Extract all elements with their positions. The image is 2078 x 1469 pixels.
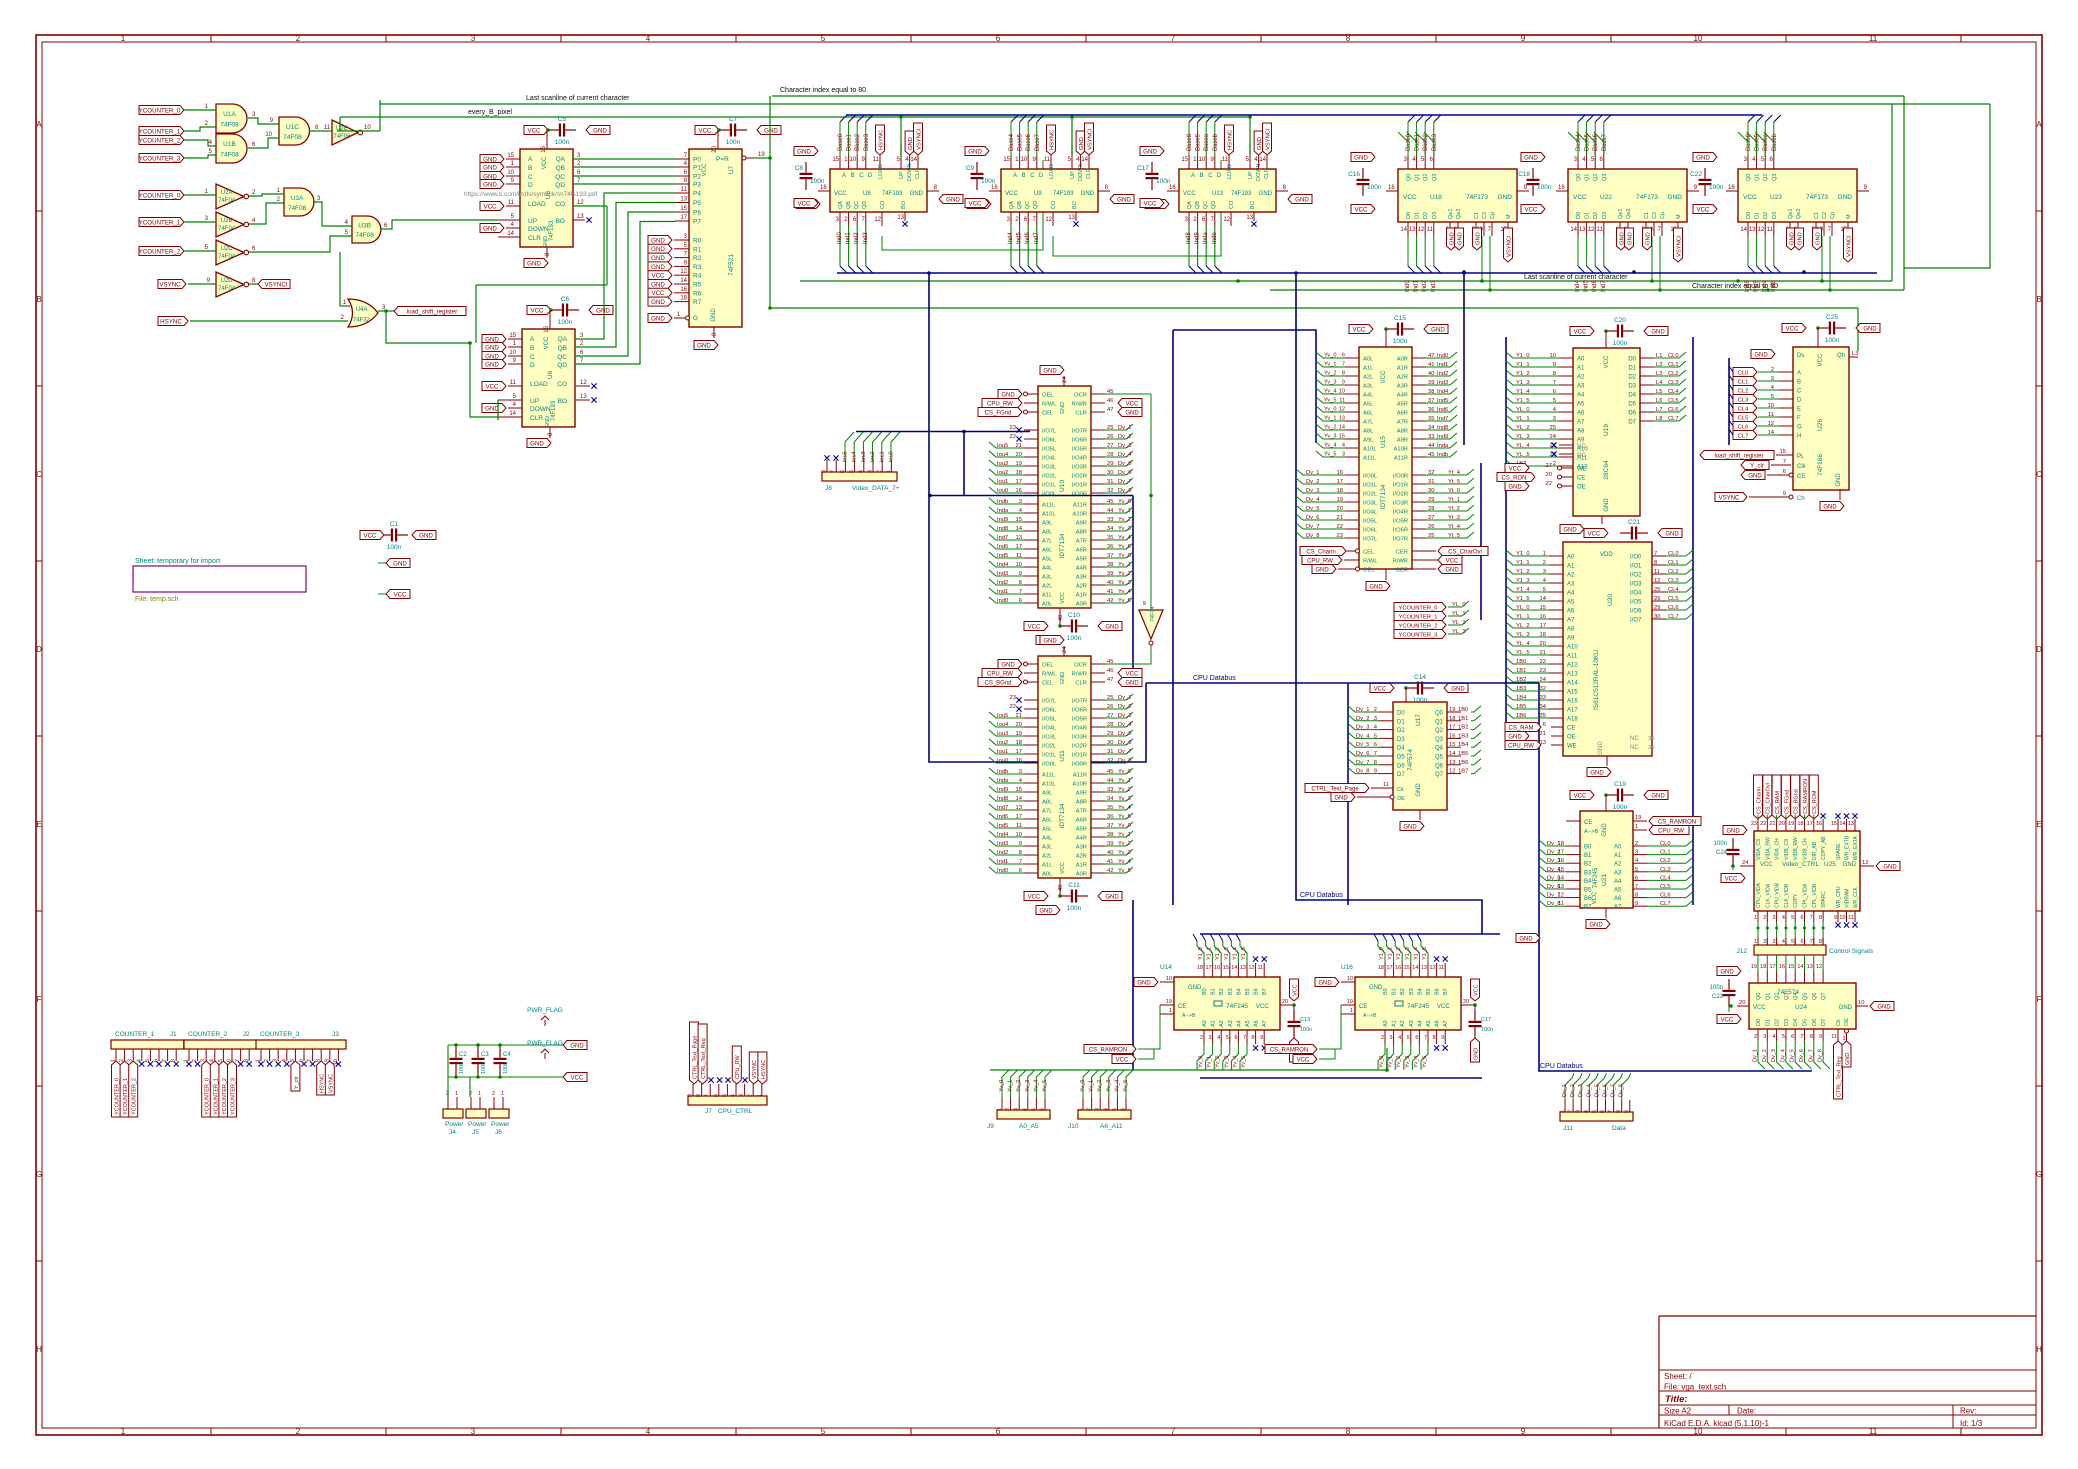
svg-text:VSYNCI: VSYNCI [916, 128, 922, 150]
svg-text:100n: 100n [981, 178, 996, 185]
svg-text:R4: R4 [693, 273, 702, 280]
svg-text:35: 35 [1648, 745, 1654, 751]
svg-text:A8L: A8L [1042, 530, 1053, 536]
svg-text:A3: A3 [1409, 1020, 1415, 1027]
svg-text:Ind0: Ind0 [1405, 280, 1411, 292]
svg-text:Yt_5: Yt_5 [1448, 479, 1460, 485]
svg-text:Indb: Indb [997, 769, 1008, 775]
svg-text:R/WL: R/WL [1042, 402, 1057, 408]
svg-text:4: 4 [1584, 1110, 1590, 1113]
svg-text:C8: C8 [795, 165, 804, 172]
svg-text:GND: GND [1403, 824, 1417, 830]
svg-text:I/O5L: I/O5L [1363, 519, 1378, 525]
svg-text:Title:: Title: [1665, 1394, 1688, 1405]
svg-text:19: 19 [1016, 731, 1022, 737]
svg-text:12: 12 [1558, 893, 1564, 899]
svg-text:Ind5: Ind5 [1584, 280, 1590, 292]
svg-text:I/O0: I/O0 [1630, 555, 1642, 561]
svg-text:J1: J1 [170, 1031, 177, 1038]
svg-text:YL_2: YL_2 [1516, 425, 1530, 431]
svg-text:Video_CTRL: Video_CTRL [1782, 861, 1819, 868]
svg-text:10: 10 [1347, 976, 1353, 982]
svg-text:VCC: VCC [1292, 984, 1298, 996]
svg-text:GND: GND [651, 299, 665, 306]
svg-text:29: 29 [1107, 731, 1113, 737]
svg-text:A9L: A9L [1042, 521, 1053, 527]
svg-text:Yv_5: Yv_5 [1118, 814, 1131, 820]
svg-text:QC: QC [854, 201, 860, 209]
svg-text:U1A: U1A [223, 111, 236, 118]
svg-text:Dv_3: Dv_3 [1356, 725, 1370, 731]
svg-text:GND: GND [1815, 232, 1821, 245]
svg-text:19: 19 [1788, 821, 1794, 827]
svg-text:100n: 100n [558, 319, 573, 326]
svg-text:Iou2: Iou2 [997, 740, 1008, 746]
svg-text:Y1_2: Y1_2 [1215, 947, 1221, 960]
svg-text:A11L: A11L [1042, 503, 1056, 509]
svg-text:D: D [1217, 173, 1222, 179]
svg-text:Dv_4: Dv_4 [1780, 1049, 1786, 1062]
svg-text:13: 13 [1409, 227, 1416, 233]
svg-text:7: 7 [1608, 1110, 1614, 1113]
svg-text:VCC: VCC [1060, 862, 1066, 874]
svg-text:A6_A11: A6_A11 [1100, 1123, 1123, 1130]
svg-text:CLK_VIDB: CLK_VIDB [1784, 883, 1790, 908]
svg-text:5: 5 [1592, 1110, 1598, 1113]
svg-text:39: 39 [1107, 571, 1113, 577]
svg-text:I/O1R: I/O1R [1072, 483, 1087, 489]
svg-text:VCC: VCC [571, 1075, 584, 1081]
svg-text:GND: GND [1863, 326, 1877, 332]
svg-text:Y1_3: Y1_3 [1405, 947, 1411, 960]
svg-text:74F193: 74F193 [549, 220, 555, 241]
svg-text:CL6: CL6 [1660, 893, 1671, 899]
svg-text:Dv_1: Dv_1 [1753, 1049, 1759, 1062]
svg-text:C: C [859, 173, 864, 179]
svg-text:GND: GND [1001, 662, 1015, 668]
svg-text:File: temp.sch: File: temp.sch [135, 596, 179, 603]
svg-text:C2: C2 [1652, 212, 1658, 219]
svg-text:VCC: VCC [485, 383, 499, 390]
svg-text:17: 17 [680, 215, 687, 221]
svg-text:I/O0R: I/O0R [1072, 492, 1087, 498]
svg-text:VCC: VCC [542, 156, 548, 169]
svg-text:13: 13 [1579, 227, 1586, 233]
svg-text:13: 13 [1807, 964, 1813, 970]
svg-text:Yv_5: Yv_5 [1422, 1056, 1428, 1068]
svg-text:GND: GND [910, 191, 924, 197]
svg-text:Ind0: Ind0 [997, 598, 1008, 604]
svg-text:U23: U23 [1770, 194, 1782, 201]
svg-text:8: 8 [1019, 580, 1022, 586]
svg-text:Dv_5: Dv_5 [1790, 1049, 1796, 1062]
svg-text:16: 16 [820, 185, 827, 191]
svg-text:CPU_CTRL: CPU_CTRL [718, 1108, 753, 1115]
svg-text:17: 17 [1016, 479, 1022, 485]
svg-text:D3: D3 [1772, 212, 1778, 219]
svg-text:I/O3R: I/O3R [1072, 735, 1087, 741]
svg-text:Yv_3: Yv_3 [1106, 1080, 1112, 1092]
svg-text:Dv_2: Dv_2 [1118, 704, 1132, 710]
svg-text:Ind1: Ind1 [1437, 362, 1448, 368]
svg-text:Yt_4: Yt_4 [1448, 470, 1461, 476]
svg-text:L7: L7 [1656, 407, 1662, 413]
svg-text:I/O7: I/O7 [1630, 618, 1642, 624]
svg-text:1: 1 [121, 34, 126, 43]
svg-text:13: 13 [1421, 965, 1427, 971]
svg-text:PWR_FLAG: PWR_FLAG [527, 1007, 563, 1014]
svg-text:U15: U15 [1380, 436, 1387, 448]
svg-text:41: 41 [1107, 589, 1113, 595]
svg-text:17: 17 [1807, 821, 1813, 827]
svg-text:13: 13 [577, 214, 584, 220]
svg-text:VCC: VCC [651, 273, 665, 280]
svg-text:U24: U24 [1795, 1004, 1807, 1011]
svg-text:U8: U8 [863, 191, 871, 197]
svg-text:P5: P5 [693, 200, 701, 207]
svg-text:GND: GND [1188, 985, 1202, 991]
svg-text:U4A: U4A [356, 307, 368, 313]
svg-text:Q0: Q0 [1756, 993, 1762, 1000]
svg-text:1: 1 [121, 1427, 126, 1436]
svg-text:2: 2 [492, 1091, 495, 1097]
svg-text:I/O1R: I/O1R [1072, 753, 1087, 759]
svg-text:H: H [36, 1345, 42, 1354]
svg-text:Dv_1: Dv_1 [1118, 695, 1132, 701]
svg-text:Yv_1: Yv_1 [1089, 1080, 1095, 1092]
svg-text:16: 16 [1558, 185, 1565, 191]
svg-text:4: 4 [1022, 1108, 1028, 1111]
svg-text:11: 11 [1768, 412, 1774, 418]
svg-text:Ind3: Ind3 [997, 571, 1008, 577]
svg-text:11: 11 [1339, 398, 1345, 404]
svg-text:3: 3 [1773, 915, 1776, 921]
svg-text:11: 11 [1767, 227, 1774, 233]
svg-text:NC: NC [1630, 736, 1639, 742]
svg-text:Dv_6: Dv_6 [1799, 1049, 1805, 1062]
svg-text:I/O1L: I/O1L [1042, 483, 1057, 489]
svg-text:25: 25 [1428, 533, 1434, 539]
svg-text:B1: B1 [1211, 988, 1217, 995]
svg-text:A: A [842, 173, 846, 179]
svg-text:16: 16 [1016, 758, 1022, 764]
svg-text:GND: GND [1001, 392, 1015, 398]
svg-text:27: 27 [1546, 463, 1552, 469]
svg-text:CL1: CL1 [1668, 362, 1679, 368]
svg-text:C9: C9 [966, 165, 975, 172]
svg-text:100n: 100n [1537, 184, 1552, 191]
svg-text:8: 8 [1810, 1034, 1813, 1040]
svg-text:CS_ROM: CS_ROM [1812, 790, 1818, 814]
svg-text:19: 19 [1337, 497, 1343, 503]
svg-text:GND: GND [1039, 908, 1053, 914]
svg-text:B0: B0 [1202, 988, 1208, 995]
svg-text:GND: GND [1838, 194, 1853, 201]
svg-text:A4: A4 [1614, 879, 1622, 885]
svg-text:HSYNC: HSYNC [1227, 130, 1233, 150]
svg-text:28: 28 [1428, 506, 1434, 512]
svg-text:VCC: VCC [1604, 355, 1610, 368]
svg-text:2: 2 [296, 34, 301, 43]
svg-text:B3: B3 [1228, 988, 1234, 995]
svg-text:J2: J2 [243, 1031, 250, 1038]
svg-text:GND: GND [1589, 922, 1603, 928]
svg-text:R5: R5 [693, 282, 702, 289]
svg-text:6: 6 [996, 1427, 1001, 1436]
svg-text:Yv_1: Yv_1 [1118, 562, 1131, 568]
svg-text:GND: GND [393, 560, 407, 567]
svg-text:17: 17 [1016, 544, 1022, 550]
svg-text:BO: BO [556, 218, 565, 225]
svg-text:11: 11 [1848, 915, 1854, 921]
svg-text:Indb: Indb [997, 499, 1008, 505]
svg-text:A2: A2 [1567, 573, 1575, 579]
svg-text:GND: GND [485, 405, 499, 412]
svg-text:VCC: VCC [1721, 1017, 1734, 1023]
svg-text:C14: C14 [1414, 674, 1426, 681]
svg-text:VCC: VCC [1437, 1004, 1450, 1010]
svg-text:CPL_VIDB: CPL_VIDB [1812, 883, 1818, 908]
svg-text:I/O5R: I/O5R [1072, 447, 1087, 453]
svg-text:CLR: CLR [528, 235, 541, 242]
svg-text:6: 6 [713, 1094, 719, 1097]
svg-text:GND: GND [1524, 154, 1538, 161]
svg-text:13: 13 [1749, 227, 1756, 233]
svg-text:A1R: A1R [1076, 863, 1087, 869]
svg-text:22: 22 [1546, 481, 1552, 487]
svg-text:Yv_2: Yv_2 [1118, 571, 1131, 577]
svg-text:20: 20 [1739, 1000, 1745, 1006]
svg-text:C1: C1 [1814, 212, 1820, 219]
svg-text:A10L: A10L [1042, 512, 1056, 518]
svg-text:10: 10 [1021, 157, 1028, 163]
svg-text:22: 22 [1540, 659, 1546, 665]
svg-text:U26: U26 [1817, 419, 1824, 431]
svg-text:A0R: A0R [1076, 872, 1087, 878]
svg-text:GND: GND [1668, 194, 1683, 201]
svg-text:NC: NC [1577, 444, 1586, 450]
svg-text:A0L: A0L [1363, 357, 1374, 363]
svg-text:A4L: A4L [1363, 393, 1374, 399]
svg-text:D3: D3 [1602, 212, 1608, 219]
svg-text:A9R: A9R [1397, 438, 1408, 444]
svg-text:Y1_4: Y1_4 [1232, 947, 1238, 960]
svg-text:10: 10 [850, 157, 857, 163]
svg-text:27: 27 [1428, 515, 1434, 521]
svg-text:Id: 1/3: Id: 1/3 [1960, 1419, 1983, 1428]
svg-text:J12: J12 [1737, 948, 1748, 955]
svg-text:CL5: CL5 [1668, 398, 1679, 404]
svg-text:C23: C23 [1712, 994, 1724, 1000]
svg-text:74F04: 74F04 [218, 226, 236, 232]
svg-text:VCC: VCC [1818, 353, 1824, 366]
svg-text:38: 38 [1107, 832, 1113, 838]
svg-text:VCC: VCC [1256, 1004, 1269, 1010]
svg-text:CO: CO [557, 381, 567, 388]
svg-text:D2: D2 [1593, 212, 1599, 219]
svg-text:12: 12 [1449, 769, 1455, 775]
svg-text:Yv_4: Yv_4 [1118, 805, 1132, 811]
svg-text:I/O4L: I/O4L [1363, 510, 1378, 516]
svg-text:GND: GND [711, 308, 717, 322]
svg-text:CE: CE [1178, 1004, 1186, 1010]
svg-text:CL2: CL2 [1660, 858, 1671, 864]
svg-text:VCC: VCC [1183, 191, 1196, 197]
svg-text:A2: A2 [1614, 862, 1622, 868]
svg-text:Dv_7: Dv_7 [1808, 1049, 1814, 1062]
svg-text:J6: J6 [495, 1129, 502, 1136]
svg-text:B0: B0 [1584, 845, 1592, 851]
svg-text:Ind4: Ind4 [1008, 232, 1014, 244]
svg-text:46: 46 [1107, 398, 1113, 404]
svg-text:10: 10 [1768, 403, 1774, 409]
svg-text:YCOUNTER_3: YCOUNTER_3 [231, 1078, 237, 1115]
svg-text:COUNTER_1: COUNTER_1 [115, 1031, 155, 1038]
svg-text:3: 3 [868, 470, 874, 473]
svg-text:10: 10 [1016, 832, 1022, 838]
svg-text:A5: A5 [1567, 600, 1575, 606]
svg-text:R6: R6 [693, 290, 702, 297]
svg-text:Iou0: Iou0 [997, 758, 1008, 764]
svg-text:17: 17 [1558, 850, 1564, 856]
svg-text:UP: UP [528, 218, 537, 225]
svg-text:Ind9: Ind9 [1195, 232, 1201, 244]
svg-text:C: C [1797, 389, 1802, 395]
svg-text:A5: A5 [1426, 1020, 1432, 1027]
svg-text:14: 14 [680, 278, 687, 284]
svg-text:Yv_1: Yv_1 [1388, 1056, 1394, 1068]
svg-text:J10: J10 [1068, 1123, 1079, 1130]
svg-text:A7: A7 [1443, 1020, 1449, 1027]
svg-text:A4: A4 [1577, 393, 1585, 399]
svg-text:Inda: Inda [997, 778, 1009, 784]
svg-text:Cp: Cp [1660, 212, 1666, 219]
svg-text:Dv_3: Dv_3 [1578, 1084, 1584, 1097]
svg-text:GND: GND [1105, 624, 1119, 630]
svg-text:16: 16 [1388, 185, 1395, 191]
svg-text:Control Signals: Control Signals [1829, 948, 1874, 955]
svg-text:IDT7134: IDT7134 [1059, 803, 1066, 828]
svg-text:U11: U11 [1059, 750, 1066, 762]
svg-text:74F173: 74F173 [1466, 194, 1488, 201]
svg-text:Dv_8: Dv_8 [1818, 1049, 1824, 1062]
svg-text:C: C [1030, 173, 1035, 179]
svg-text:GND: GND [651, 281, 665, 288]
svg-text:8: 8 [1374, 760, 1377, 766]
svg-text:A9: A9 [1577, 438, 1585, 444]
svg-text:YCOUNTER_1: YCOUNTER_1 [139, 219, 181, 226]
svg-text:B2: B2 [1400, 988, 1406, 995]
svg-text:1B5: 1B5 [1516, 704, 1526, 710]
svg-text:40: 40 [1428, 371, 1434, 377]
svg-text:CO: CO [1051, 200, 1057, 209]
svg-text:I/O2R: I/O2R [1072, 744, 1087, 750]
svg-text:6: 6 [1600, 1110, 1606, 1113]
svg-text:1: 1 [1754, 915, 1757, 921]
svg-text:8: 8 [1819, 915, 1822, 921]
svg-text:A4L: A4L [1042, 566, 1053, 572]
svg-text:Q2: Q2 [1593, 174, 1599, 181]
svg-text:GND: GND [1754, 352, 1768, 358]
svg-text:18: 18 [1337, 488, 1343, 494]
svg-text:C25: C25 [1826, 314, 1838, 321]
svg-text:J9: J9 [987, 1123, 994, 1130]
svg-text:14: 14 [1016, 796, 1023, 802]
svg-text:A6: A6 [1577, 411, 1585, 417]
svg-text:Dv_1: Dv_1 [1118, 425, 1132, 431]
svg-text:C: C [528, 174, 533, 181]
svg-text:100n: 100n [1067, 905, 1082, 912]
svg-text:I/O3L: I/O3L [1042, 465, 1057, 471]
svg-text:9: 9 [1635, 901, 1638, 907]
svg-text:SPARC: SPARC [1821, 891, 1827, 908]
svg-text:Yv_2: Yv_2 [1396, 1056, 1402, 1068]
svg-text:A0: A0 [1383, 1020, 1389, 1027]
svg-text:4: 4 [1342, 443, 1345, 449]
svg-text:2: 2 [877, 470, 883, 473]
svg-text:D1: D1 [1585, 212, 1591, 219]
svg-text:26: 26 [1107, 704, 1113, 710]
svg-text:GND: GND [1651, 329, 1665, 335]
svg-text:7: 7 [1553, 380, 1556, 386]
svg-text:Ind7: Ind7 [997, 535, 1008, 541]
svg-text:U7: U7 [728, 165, 735, 174]
svg-text:6: 6 [1635, 875, 1638, 881]
svg-text:KiCad E.D.A. kicad (5.1.10)-1: KiCad E.D.A. kicad (5.1.10)-1 [1664, 1419, 1769, 1428]
svg-text:I/O6L: I/O6L [1363, 528, 1378, 534]
svg-text:7: 7 [1342, 362, 1345, 368]
svg-text:Q1: Q1 [1435, 719, 1444, 725]
svg-text:1: 1 [1543, 551, 1546, 557]
svg-text:6: 6 [840, 470, 846, 473]
svg-text:YL_3: YL_3 [1452, 629, 1466, 635]
svg-text:IS61C512RAL-10KU: IS61C512RAL-10KU [1593, 650, 1600, 710]
svg-text:31: 31 [1107, 479, 1113, 485]
svg-text:30: 30 [1654, 614, 1660, 620]
svg-text:COPY: COPY [1793, 893, 1799, 908]
svg-text:B7: B7 [1262, 988, 1268, 995]
svg-text:L4: L4 [1656, 380, 1663, 386]
svg-text:Y1_4: Y1_4 [1413, 947, 1419, 960]
svg-text:2: 2 [1553, 461, 1556, 467]
svg-text:Dv_5: Dv_5 [1306, 506, 1320, 512]
svg-text:2: 2 [1635, 841, 1638, 847]
svg-text:CL6: CL6 [1668, 407, 1679, 413]
svg-text:B: B [851, 173, 855, 179]
svg-text:74F245: 74F245 [1407, 1003, 1429, 1010]
svg-text:CPU_RW: CPU_RW [1508, 743, 1534, 749]
svg-text:A3L: A3L [1042, 575, 1053, 581]
svg-text:A5R: A5R [1397, 402, 1408, 408]
svg-text:25: 25 [1654, 587, 1660, 593]
svg-text:1B0: 1B0 [1516, 659, 1526, 665]
svg-text:Q3: Q3 [1432, 174, 1438, 181]
svg-text:13: 13 [1016, 535, 1022, 541]
svg-text:3: 3 [1763, 1034, 1766, 1040]
svg-text:D: D [2036, 645, 2042, 654]
svg-text:1B0: 1B0 [1458, 707, 1468, 713]
svg-text:28C64: 28C64 [1603, 460, 1610, 480]
svg-text:5: 5 [1031, 1108, 1037, 1111]
svg-text:C: C [36, 470, 42, 479]
svg-text:23: 23 [1751, 821, 1757, 827]
svg-text:46: 46 [1107, 668, 1113, 674]
svg-text:Ind8: Ind8 [1186, 232, 1192, 244]
svg-text:10: 10 [1839, 915, 1845, 921]
svg-text:Yv_5: Yv_5 [1118, 544, 1131, 550]
svg-text:2: 2 [1200, 1035, 1203, 1041]
svg-text:VCC: VCC [1574, 793, 1587, 799]
